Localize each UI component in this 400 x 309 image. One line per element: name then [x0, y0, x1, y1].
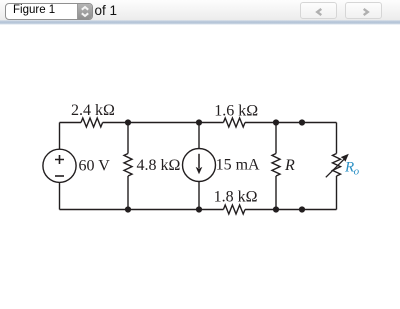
- Ro arrowhead: [341, 154, 349, 162]
- wire branch 4.8k top: [127, 123, 129, 154]
- wire bottom: left corner to 1.8k resistor: [60, 209, 224, 211]
- node dot bottom R: [273, 206, 279, 212]
- node dot top 4.8k: [125, 119, 131, 125]
- wire bottom: 1.8k to bottom-right corner: [245, 209, 337, 211]
- figure dropdown: [5, 3, 93, 20]
- resistor 2.4 kOhm: [81, 118, 103, 127]
- wire right top segment: [336, 123, 338, 154]
- resistor 4.8 kOhm: [124, 154, 132, 177]
- resistor 1.8 kOhm: [223, 205, 245, 214]
- resistor Ro zigzag: [333, 154, 341, 177]
- wire top: left corner to 2.4k resistor: [60, 122, 82, 124]
- wire branch 4.8k bottom: [127, 176, 129, 210]
- current source arrowhead: [196, 167, 203, 174]
- wire left bottom segment: [59, 182, 61, 209]
- node dot bottom 4.8k: [125, 206, 131, 212]
- svg-text:1.6 kΩ: 1.6 kΩ: [214, 103, 258, 120]
- plus sign of source: [55, 155, 64, 164]
- resistor 1.6 kOhm: [223, 118, 245, 127]
- minus sign of source: [55, 175, 64, 177]
- wire branch R bottom: [275, 176, 277, 210]
- node dot bottom source: [196, 206, 202, 212]
- Ro variable arrow shaft: [326, 158, 345, 177]
- toolbar bottom line: [0, 20, 400, 25]
- wire branch current source bottom: [198, 182, 200, 210]
- resistor R: [272, 154, 280, 177]
- terminal dot top: [299, 119, 305, 125]
- svg-text:o: o: [354, 165, 360, 177]
- svg-text:60 V: 60 V: [79, 157, 111, 174]
- svg-text:R: R: [284, 157, 295, 174]
- current source I1 circle: [183, 149, 216, 182]
- prev button: [300, 2, 337, 19]
- svg-text:15 mA: 15 mA: [216, 157, 260, 174]
- svg-text:1.8 kΩ: 1.8 kΩ: [214, 188, 258, 205]
- wire branch R top: [275, 123, 277, 154]
- node dot top source: [196, 119, 202, 125]
- wire branch current source top: [198, 123, 200, 149]
- wire right bottom segment: [336, 176, 338, 210]
- current source arrow shaft: [198, 154, 200, 168]
- terminal dot bottom: [299, 206, 305, 212]
- of 1 text: [95, 3, 118, 18]
- voltage source V1 circle: [43, 149, 76, 182]
- wire top: 2.4k to node A: [103, 122, 199, 124]
- svg-text:2.4 kΩ: 2.4 kΩ: [71, 102, 115, 119]
- wire top: 1.6k to top-right corner: [245, 122, 337, 124]
- next button: [345, 2, 382, 19]
- svg-text:4.8 kΩ: 4.8 kΩ: [137, 157, 181, 174]
- toolbar: [0, 0, 400, 20]
- wire top: node A to 1.6k resistor: [199, 122, 223, 124]
- node dot top R: [273, 119, 279, 125]
- wire left top segment: [59, 123, 61, 150]
